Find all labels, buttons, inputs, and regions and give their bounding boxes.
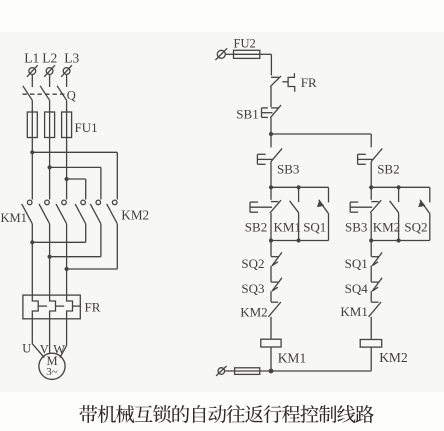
svg-text:KM2: KM2 [373, 220, 400, 235]
svg-text:U: U [22, 342, 31, 356]
node bus junction [269, 238, 273, 242]
wire drop to SB3 NC [370, 187, 372, 200]
wire Q to FU1 phase 2 [49, 100, 51, 199]
svg-text:FR: FR [301, 75, 317, 90]
wires down to bottom bus right group [370, 213, 372, 241]
contactor KM2 main contact 2 [96, 200, 101, 205]
pushbutton SB3 actuator [256, 154, 258, 164]
wire bus to SQ2 [270, 241, 272, 257]
pushbutton SB3 (NO start forward) [271, 148, 282, 161]
svg-text:SB1: SB1 [236, 106, 258, 121]
thermal relay FR link line [38, 305, 47, 307]
terminal L2 [46, 68, 53, 75]
wire bottom bus [260, 370, 371, 372]
switch Q pole 3 [57, 86, 67, 101]
node bus junction [369, 185, 373, 189]
wire phase1 to KM2 contact 3 [32, 151, 117, 153]
svg-text:KM1: KM1 [274, 220, 301, 235]
node junction bottom [269, 369, 274, 374]
contact KM1 interlock (NC) [371, 301, 378, 303]
wire to motor W [60, 345, 67, 357]
node bus junction [269, 185, 273, 189]
switch Q pole 2 [40, 86, 50, 101]
svg-text:SQ4: SQ4 [345, 281, 369, 296]
wire FU2 to FR contact [260, 53, 272, 55]
contact KM1 auxiliary (NO self-hold) [290, 201, 299, 213]
svg-text:FU2: FU2 [234, 37, 256, 51]
coil KM1 [261, 339, 281, 347]
wire L3 to switch Q [66, 74, 68, 87]
wire drop to KM2 aux [398, 187, 400, 202]
wire bus bottom right group [371, 240, 430, 242]
wire SQ1 to SQ4 [370, 266, 372, 282]
node bus junction [369, 238, 373, 242]
svg-text:KM2: KM2 [121, 208, 149, 223]
wire terminal to bottom fuse [225, 370, 235, 372]
node bus junction [297, 185, 301, 189]
svg-text:L3: L3 [64, 50, 79, 65]
wire bus top right group [371, 186, 430, 188]
limit switch SQ2 contact (NO) [420, 200, 430, 214]
pushbutton SB2 NC interlock contact [271, 201, 278, 203]
switch Q pole 1 [23, 86, 33, 101]
svg-text:SQ2: SQ2 [241, 256, 264, 271]
pushbutton SB3 NC actuator [349, 202, 351, 212]
svg-text:3~: 3~ [46, 366, 58, 378]
limit switch SQ1 contact (NO) [319, 200, 329, 214]
node junction phase3 lower [65, 267, 69, 271]
thermal relay FR heater 1 [32, 224, 38, 344]
thermal relay FR box [23, 295, 80, 319]
svg-text:FR: FR [85, 300, 101, 315]
wire KM1 NC to coil KM2 [370, 317, 372, 340]
svg-text:KM2: KM2 [379, 350, 408, 365]
wire KM2 contact3 bottom to phase3 [116, 224, 118, 269]
svg-text:Q: Q [67, 89, 76, 103]
wire L2 to switch Q [49, 74, 51, 87]
svg-text:SB3: SB3 [345, 220, 367, 235]
wire phase3 to KM2 contact 1 [67, 178, 86, 180]
fuse FU2 [234, 50, 260, 58]
wire to motor U [32, 344, 44, 358]
pushbutton SB1 (NC stop) [271, 107, 279, 109]
wire drop to KM1 aux [298, 187, 300, 202]
wire SB2 to bus [370, 162, 372, 188]
wire SB1 to junction [270, 118, 272, 148]
svg-text:L1: L1 [24, 50, 39, 65]
svg-text:SQ1: SQ1 [303, 220, 326, 235]
wire junction to right branch [271, 133, 371, 135]
fuse FU1 element 2 [45, 112, 55, 138]
limit switch SQ4 contact (NC) [371, 281, 378, 283]
thermal relay FR heater 3 [67, 224, 73, 346]
svg-text:KM1: KM1 [1, 211, 27, 225]
limit switch SQ2 contact (NC) [271, 256, 278, 258]
wire SQ2 to SQ3 [270, 266, 272, 282]
contactor KM1 main contact 1 [27, 200, 32, 205]
wire bus top left group [271, 186, 329, 188]
node junction phase3 upper [65, 177, 69, 181]
node junction A [269, 132, 273, 136]
wire terminal to FU2 [225, 53, 233, 55]
svg-text:SB2: SB2 [377, 161, 399, 176]
limit switch SQ1 contact (NC) [371, 256, 378, 258]
switch Q linkage (dashed) [23, 93, 68, 95]
wire KM2 contact2 bottom to phase2 [100, 224, 102, 257]
contactor KM1 main contact 2 [45, 200, 50, 205]
fuse control bottom [235, 368, 260, 375]
wire bus to SQ1 [370, 241, 372, 257]
wire SB3 to bus [270, 162, 272, 188]
terminal control bottom [218, 368, 225, 375]
wire Q to FU1 phase 1 [31, 100, 33, 199]
svg-text:FU1: FU1 [75, 120, 98, 135]
wire drop to SQ2 NO [429, 187, 431, 202]
motor M circle [39, 353, 65, 379]
wire L1 to switch Q [31, 74, 33, 87]
thermal actuator FR symbol [288, 73, 295, 91]
wire coil KM2 to bottom bus [370, 347, 372, 371]
svg-text:L2: L2 [42, 50, 57, 65]
pushbutton SB3 NC interlock contact [371, 201, 378, 203]
title text 带机械互锁的自动往返行程控制线路 [79, 405, 374, 423]
wire Q to FU1 phase 3 [66, 100, 68, 199]
wire KM2 NC to coil KM1 [270, 317, 272, 339]
pushbutton SB2 NC actuator [249, 202, 251, 212]
node junction phase2 upper [48, 165, 52, 169]
wire SQ4 to KM1 NC [370, 291, 372, 302]
pushbutton SB2 actuator [357, 154, 359, 164]
node junction phase1 upper [30, 150, 34, 154]
node junction phase2 lower [48, 255, 52, 259]
wire FR to SB1 [270, 87, 272, 107]
limit switch SQ3 contact (NC) [271, 281, 278, 283]
contactor KM2 main contact 1 [81, 200, 86, 205]
node bus junction [397, 238, 401, 242]
contactor KM1 main contact 3 [62, 200, 67, 205]
wire bus bottom left group [271, 240, 329, 242]
thermal relay FR heater 2 [50, 224, 56, 354]
wire phase2 to KM2 contact 2 [50, 166, 101, 168]
contactor KM2 main contact 3 [112, 200, 117, 205]
svg-text:SB2: SB2 [245, 220, 267, 235]
svg-text:KM1: KM1 [278, 350, 307, 365]
svg-text:SQ1: SQ1 [345, 256, 368, 271]
wires down to bottom bus left group [270, 213, 272, 241]
svg-text:SB3: SB3 [277, 162, 299, 177]
wire KM2 contact1 bottom to phase1 [85, 224, 87, 243]
pushbutton SB1 actuator [261, 108, 263, 118]
terminal L1 [29, 68, 36, 75]
node bus junction [297, 238, 301, 242]
relay contact FR (NC) [271, 76, 279, 78]
terminal L3 [63, 68, 70, 75]
contact KM2 interlock (NC) [271, 301, 278, 303]
svg-text:SQ2: SQ2 [404, 220, 427, 235]
svg-text:SQ3: SQ3 [241, 281, 264, 296]
node junction phase1 lower [30, 240, 34, 244]
wire drop to SQ1 [328, 187, 330, 202]
contact KM2 auxiliary (NO self-hold) [390, 201, 399, 213]
wire coil KM1 to bottom bus [270, 347, 272, 371]
svg-text:KM1: KM1 [340, 304, 367, 319]
terminal control top [217, 50, 225, 58]
wire SQ3 to KM2 NC [270, 291, 272, 302]
wire drop to SB2 NC [270, 187, 272, 200]
fuse FU1 element 3 [62, 112, 72, 138]
svg-text:KM2: KM2 [240, 305, 267, 320]
fuse FU1 element 1 [27, 112, 37, 138]
coil KM2 [360, 340, 382, 348]
pushbutton SB2 (NO start reverse) [371, 148, 382, 161]
node bus junction [397, 185, 401, 189]
